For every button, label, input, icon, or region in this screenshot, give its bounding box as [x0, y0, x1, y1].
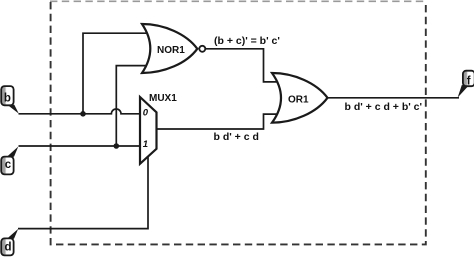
svg-text:b: b: [4, 92, 11, 104]
svg-text:MUX1: MUX1: [149, 93, 177, 104]
svg-text:OR1: OR1: [288, 95, 309, 106]
wire c input: [19, 145, 146, 147]
svg-text:1: 1: [143, 139, 148, 150]
dashed schematic border top: [50, 0, 426, 2]
pin tag c: [1, 147, 18, 175]
wire b junction up to NOR top input: [83, 33, 149, 114]
svg-text:b d' + c d + b' c': b d' + c d + b' c': [345, 101, 423, 113]
node junction on c wire: [114, 143, 120, 149]
svg-text:d: d: [5, 241, 12, 253]
wire NOR bottom input down to c wire: [116, 66, 149, 146]
svg-text:c: c: [5, 159, 12, 171]
wire NOR output to OR top input: [205, 49, 279, 82]
pin tag f: [458, 71, 474, 98]
dashed schematic border left/bottom/right: [51, 2, 426, 244]
svg-text:(b + c)' = b' c': (b + c)' = b' c': [214, 35, 280, 47]
wire OR output to f: [327, 97, 459, 99]
wire MUX output to OR bottom input: [156, 114, 279, 129]
svg-text:0: 0: [143, 107, 149, 118]
wire b input with hop over vertical: [19, 109, 147, 114]
svg-text:b d' + c d: b d' + c d: [214, 131, 259, 143]
pin tag d: [1, 229, 18, 256]
gate NOR1: [142, 24, 205, 73]
pin tag b: [1, 86, 19, 114]
mux MUX1: [140, 93, 177, 164]
svg-text:f: f: [467, 75, 471, 87]
wire d input to MUX select: [18, 155, 148, 229]
gate OR1: [272, 73, 328, 123]
svg-text:NOR1: NOR1: [157, 45, 185, 56]
node junction on b wire: [80, 111, 86, 117]
